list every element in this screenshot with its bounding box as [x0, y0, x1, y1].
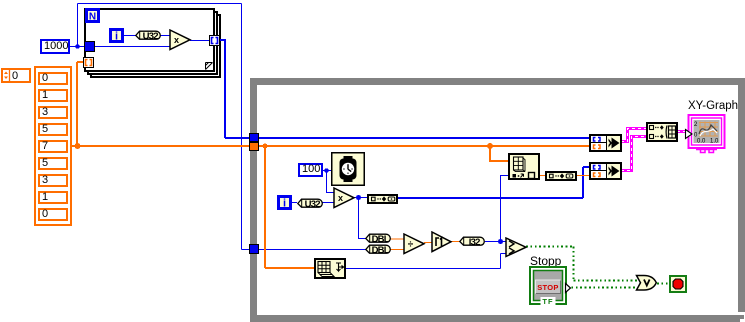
wire node2 to bundle2	[577, 175, 590, 177]
wire boolean greater-equal to or	[526, 247, 637, 281]
build array node 2	[545, 171, 577, 181]
wire orange to array size node	[265, 267, 315, 269]
junction dot orange right	[487, 143, 493, 149]
svg-text:N: N	[89, 12, 96, 23]
while loop border right	[738, 78, 745, 312]
wire 100 branch to multiply2	[327, 171, 335, 193]
svg-text:0.0: 0.0	[697, 139, 706, 145]
round toward -infinity node	[431, 231, 453, 253]
wire 1000 to for loop tunnel	[70, 46, 85, 48]
while loop iteration terminal i	[277, 195, 292, 210]
build array of clusters node	[646, 122, 678, 142]
index array node	[508, 153, 540, 180]
wire top horizontal	[78, 3, 242, 5]
while loop corner notch	[740, 319, 744, 322]
svg-text:x: x	[338, 193, 343, 203]
for loop output auto-index tunnel	[209, 35, 220, 46]
array index control	[1, 68, 31, 83]
wire multiply2 branch down to DBL1	[359, 198, 367, 239]
wire i2 to U32	[292, 202, 297, 204]
for loop input tunnel (solid blue)	[84, 41, 95, 52]
wire array into while loop tunnel	[225, 137, 250, 139]
bundle node 1	[589, 134, 622, 152]
while loop border top	[250, 78, 744, 85]
wire U32 to multiply	[160, 35, 171, 37]
while loop border bottom	[250, 315, 744, 322]
wire cluster bundle1 to build array	[621, 129, 647, 142]
svg-text:TF: TF	[542, 297, 553, 306]
array index value 0	[12, 70, 18, 82]
wire boolean stop button to or	[567, 287, 637, 289]
svg-text:U32: U32	[143, 31, 159, 41]
conversion bullet U32 (for loop)	[135, 30, 162, 41]
for loop orange auto-index tunnel	[83, 57, 94, 68]
wire multiply to out tunnel	[190, 40, 210, 42]
wire right vertical down	[241, 4, 243, 250]
wire round to I32	[451, 241, 460, 243]
junction dot 100	[324, 168, 328, 172]
junction dot multiply2 out	[356, 195, 361, 200]
while loop tunnel orange array	[249, 142, 259, 151]
junction dot array out	[75, 143, 81, 149]
bundle node 2	[589, 162, 622, 180]
conversion bullet U32 (while loop)	[297, 198, 324, 209]
for loop frame	[84, 8, 215, 72]
greater or equal node	[505, 237, 528, 258]
wire orange branch down left	[264, 146, 266, 268]
wire array out	[72, 145, 250, 147]
wire node1 array to bundle2	[398, 167, 590, 198]
wire boolean or to loop condition	[657, 283, 670, 285]
or node	[635, 274, 658, 292]
wire into while loop to DBL2	[242, 249, 367, 251]
array element 5b	[38, 157, 68, 170]
array element 7	[38, 140, 68, 153]
svg-text:1.0: 1.0	[710, 139, 719, 145]
junction dot 1000	[75, 44, 79, 48]
array element 5	[38, 123, 68, 136]
for loop page 3	[90, 14, 221, 78]
for loop iteration terminal i	[109, 28, 124, 43]
wire orange branch to index array	[490, 146, 509, 161]
array constant frame	[34, 66, 72, 226]
wire I32 to greater-equal	[485, 241, 506, 243]
array element 0	[38, 72, 68, 85]
wire tunnel to multiply	[95, 46, 171, 48]
multiply node (for loop)	[169, 29, 192, 51]
svg-text:i: i	[115, 31, 118, 43]
wire 1000 branch up	[77, 4, 79, 47]
junction dot I32 out	[498, 239, 503, 244]
wire array to for loop orange tunnel	[77, 61, 84, 63]
wire for loop output array	[219, 39, 226, 41]
wire blue array to bundle1	[258, 137, 590, 139]
while loop tunnel blue scalar	[249, 244, 259, 254]
svg-text:DBL: DBL	[372, 245, 390, 255]
conversion bullet DBL upper	[365, 233, 391, 244]
wire i to U32 in for loop	[124, 35, 137, 37]
array element 1	[38, 89, 68, 102]
conversion bullet I32	[459, 236, 485, 247]
conversion bullet DBL lower	[365, 244, 391, 255]
multiply node (while loop)	[333, 187, 356, 209]
wire U32 to multiply2	[322, 202, 334, 204]
svg-text:i: i	[283, 198, 286, 210]
junction dot orange left	[263, 144, 268, 149]
numeric constant 100	[298, 163, 323, 177]
svg-text:U32: U32	[305, 199, 321, 209]
divide node	[403, 233, 426, 255]
wire 100 to wait node	[323, 170, 332, 172]
svg-text:DBL: DBL	[372, 234, 390, 244]
wire branch up to index array index input	[501, 176, 510, 242]
wire multiply2 to build node1	[354, 197, 368, 199]
loop condition stop terminal	[669, 275, 687, 293]
wire array size to greater-equal	[346, 254, 506, 269]
svg-text:I32: I32	[469, 237, 480, 247]
stop button terminal	[529, 266, 573, 307]
wire orange array to bundle1	[258, 145, 590, 147]
array element 3b	[38, 174, 68, 187]
wire DBL2 to divide	[390, 249, 404, 251]
wire index array element out	[540, 175, 546, 177]
build array node 1	[367, 194, 398, 204]
wire array down to while loop	[224, 40, 226, 138]
xy graph terminal	[684, 112, 728, 154]
while loop border left	[250, 78, 257, 321]
while loop tunnel blue array	[249, 133, 259, 142]
array element 3	[38, 106, 68, 119]
array element 0b	[38, 208, 68, 221]
for loop count terminal N	[85, 8, 100, 23]
wire cluster bundle2 to build array	[621, 137, 647, 171]
wait until next ms multiple node	[331, 152, 365, 186]
wire DBL1 to divide	[390, 238, 404, 240]
wire cluster build array to xy graph	[677, 130, 688, 133]
array element 1b	[38, 191, 68, 204]
svg-text:STOP: STOP	[537, 283, 558, 292]
wire divide to round	[424, 242, 432, 244]
xy graph label	[688, 100, 738, 112]
wire array branch up	[76, 62, 78, 146]
array index spinner	[3, 70, 13, 81]
array size node	[314, 258, 346, 279]
for loop page 2	[87, 11, 218, 75]
for loop page fold corner	[205, 62, 215, 72]
stop button label	[530, 254, 561, 268]
svg-text:x: x	[174, 35, 179, 45]
svg-text:÷: ÷	[408, 239, 414, 250]
numeric constant 1000	[40, 39, 70, 54]
